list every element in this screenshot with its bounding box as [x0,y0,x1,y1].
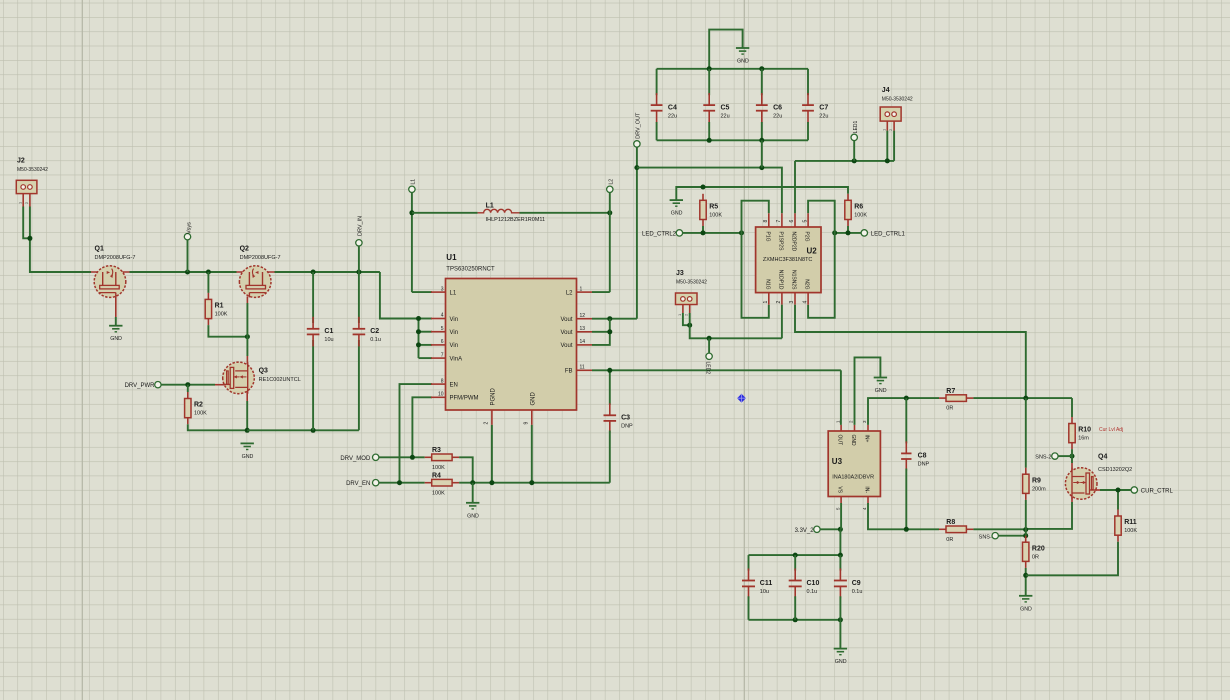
svg-text:C3: C3 [621,415,630,422]
svg-text:ZXMHC3F381N8TC: ZXMHC3F381N8TC [763,257,813,263]
svg-text:N2DP2D: N2DP2D [791,232,797,252]
svg-text:8: 8 [763,220,769,223]
svg-text:0R: 0R [946,537,953,543]
svg-text:LED1: LED1 [853,120,859,133]
svg-text:Cur Lvl Adj: Cur Lvl Adj [1099,427,1123,433]
svg-text:R2: R2 [194,402,203,409]
svg-text:N1DP1D: N1DP1D [778,270,784,290]
svg-text:0R: 0R [946,406,953,412]
svg-text:100K: 100K [194,411,207,417]
svg-text:RE1C002UNTCL: RE1C002UNTCL [259,377,301,383]
svg-text:N1G: N1G [764,279,770,289]
svg-text:C4: C4 [668,104,677,111]
svg-text:100K: 100K [215,312,228,318]
svg-text:5: 5 [802,220,808,223]
svg-text:0.1u: 0.1u [370,337,381,343]
svg-text:GND: GND [850,435,856,447]
svg-text:R1: R1 [215,303,224,310]
svg-text:GND: GND [530,392,536,406]
svg-text:P1SP2S: P1SP2S [778,232,784,252]
svg-text:VS: VS [837,486,843,493]
svg-text:16m: 16m [1078,436,1089,442]
svg-text:8: 8 [441,378,444,384]
svg-text:Q3: Q3 [259,368,268,375]
svg-text:1: 1 [763,301,769,304]
svg-text:C5: C5 [721,104,730,111]
svg-text:CSD13202Q2: CSD13202Q2 [1098,467,1132,473]
svg-text:N1SN2S: N1SN2S [791,270,797,290]
svg-text:R20: R20 [1032,545,1045,552]
svg-text:Q1: Q1 [95,246,104,253]
svg-text:9: 9 [524,422,530,425]
svg-text:C8: C8 [918,453,927,460]
svg-text:DRV_IN: DRV_IN [358,216,364,236]
svg-text:Vin: Vin [450,330,459,336]
svg-text:R10: R10 [1078,427,1091,434]
svg-text:11: 11 [580,365,585,371]
svg-text:C1: C1 [324,328,333,335]
svg-text:TPS630250RNCT: TPS630250RNCT [446,267,495,273]
svg-text:EN: EN [450,382,458,388]
svg-text:22u: 22u [721,113,730,119]
svg-text:1: 1 [580,286,583,292]
svg-text:Vout: Vout [560,330,572,336]
svg-text:100K: 100K [432,465,445,471]
svg-text:2: 2 [484,422,490,425]
svg-text:J4: J4 [882,87,890,94]
svg-text:R4: R4 [432,473,441,480]
svg-text:PFM/PWM: PFM/PWM [450,396,479,402]
svg-text:R5: R5 [709,204,718,211]
svg-text:7: 7 [776,220,782,223]
svg-text:22u: 22u [773,113,782,119]
svg-text:GND: GND [875,388,887,394]
svg-text:C10: C10 [807,580,820,587]
svg-text:22u: 22u [819,113,828,119]
svg-text:C2: C2 [370,328,379,335]
svg-text:4: 4 [441,313,444,319]
svg-text:U3: U3 [832,457,843,466]
svg-text:IN+: IN+ [864,435,870,443]
svg-text:L1: L1 [450,290,457,296]
svg-text:IN-: IN- [864,486,870,493]
svg-text:M50-3530242: M50-3530242 [17,167,48,173]
svg-text:100K: 100K [432,490,445,496]
svg-text:L2: L2 [609,179,615,185]
svg-text:13: 13 [580,326,586,332]
svg-text:M50-3530242: M50-3530242 [676,280,707,286]
svg-text:C11: C11 [760,580,773,587]
svg-text:DMP2008UFG-7: DMP2008UFG-7 [95,255,136,261]
svg-text:DRV_PWR: DRV_PWR [125,383,156,389]
svg-text:L1: L1 [411,179,417,185]
svg-text:3.3V_2: 3.3V_2 [795,528,815,534]
svg-text:Vout: Vout [560,317,572,323]
svg-text:R11: R11 [1124,519,1137,526]
svg-text:0R: 0R [1032,554,1039,560]
svg-text:0.1u: 0.1u [852,589,863,595]
svg-text:GND: GND [242,454,254,460]
svg-text:M50-3530242: M50-3530242 [882,97,913,103]
svg-text:DRV_EN: DRV_EN [346,481,370,487]
svg-text:P1G: P1G [764,232,770,242]
svg-text:22u: 22u [668,113,677,119]
svg-text:3: 3 [441,286,444,292]
svg-text:6: 6 [789,220,795,223]
svg-text:GND: GND [835,659,847,665]
svg-text:SNS-: SNS- [979,534,992,540]
svg-text:PGND: PGND [490,387,496,405]
svg-text:R3: R3 [432,447,441,454]
svg-text:LED_CTRL2: LED_CTRL2 [642,231,677,237]
svg-text:L1: L1 [486,203,494,210]
svg-text:Q2: Q2 [240,246,249,253]
svg-text:6: 6 [441,339,444,345]
svg-text:12: 12 [580,313,586,319]
svg-text:U1: U1 [446,253,457,262]
svg-text:GND: GND [737,59,749,65]
svg-text:GND: GND [1020,606,1032,612]
svg-text:U2: U2 [807,247,818,256]
svg-text:0.1u: 0.1u [807,589,818,595]
svg-text:SNS-2: SNS-2 [1035,455,1051,461]
svg-text:FB: FB [565,369,573,375]
svg-text:C6: C6 [773,104,782,111]
svg-text:L2: L2 [566,290,573,296]
svg-text:R8: R8 [946,519,955,526]
svg-text:10: 10 [438,392,444,398]
svg-text:DMP2008UFG-7: DMP2008UFG-7 [240,255,281,261]
svg-text:4: 4 [802,301,808,304]
svg-text:INA180A2IDBVR: INA180A2IDBVR [832,475,874,481]
svg-text:OUT: OUT [837,435,843,446]
svg-text:100K: 100K [1124,528,1137,534]
svg-text:2: 2 [776,301,782,304]
svg-text:N2G: N2G [804,279,810,289]
svg-text:LED_CTRL1: LED_CTRL1 [871,231,906,237]
svg-text:C7: C7 [819,104,828,111]
svg-text:100K: 100K [709,213,722,219]
svg-text:GND: GND [671,211,683,217]
svg-text:Vin: Vin [450,317,459,323]
svg-text:DNP: DNP [621,424,633,430]
svg-text:5: 5 [441,326,444,332]
svg-text:Vin: Vin [450,343,459,349]
svg-text:DRV_MOD: DRV_MOD [340,456,371,462]
svg-text:VinA: VinA [450,356,463,362]
svg-text:DRV_OUT: DRV_OUT [636,112,642,139]
svg-text:DNP: DNP [918,462,930,468]
svg-text:IHLP1212BZER1R0M11: IHLP1212BZER1R0M11 [486,217,546,223]
svg-text:J2: J2 [17,158,25,165]
svg-text:C9: C9 [852,580,861,587]
svg-text:3: 3 [789,301,795,304]
svg-text:GND: GND [110,336,122,342]
svg-text:10u: 10u [760,589,769,595]
svg-text:Q4: Q4 [1098,454,1107,461]
svg-text:R7: R7 [946,388,955,395]
svg-text:7: 7 [441,352,444,358]
svg-text:GND: GND [467,513,479,519]
svg-text:R6: R6 [854,204,863,211]
svg-text:14: 14 [580,339,586,345]
svg-text:100K: 100K [854,213,867,219]
svg-text:200m: 200m [1032,486,1046,492]
svg-text:CUR_CTRL: CUR_CTRL [1141,489,1174,495]
svg-text:Vsys: Vsys [186,222,192,234]
svg-text:10u: 10u [324,337,333,343]
svg-text:R9: R9 [1032,477,1041,484]
svg-text:LED2: LED2 [704,362,710,375]
svg-text:P2G: P2G [804,232,810,242]
svg-text:Vout: Vout [560,343,572,349]
svg-text:J3: J3 [676,270,684,277]
